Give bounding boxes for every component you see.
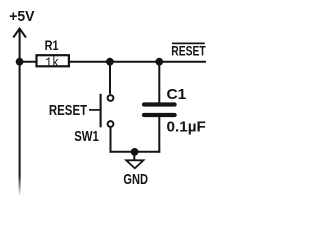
svg-text:SW1: SW1 <box>74 129 99 145</box>
svg-text:0.1µF: 0.1µF <box>167 119 207 135</box>
node: switch branch junction <box>106 58 114 66</box>
wire: left vertical (fading) <box>19 62 21 196</box>
wire: switch bottom terminal down <box>110 127 112 153</box>
capacitor C1 <box>144 105 175 116</box>
svg-text:RESET: RESET <box>171 44 206 59</box>
svg-text:1k: 1k <box>45 56 59 71</box>
node: +5V junction <box>16 58 24 66</box>
ground <box>126 152 143 168</box>
node: capacitor branch junction <box>155 58 163 66</box>
svg-text:RESET: RESET <box>49 103 87 119</box>
wire: capacitor bottom down <box>158 117 160 153</box>
wire: top horizontal rail <box>20 61 206 63</box>
node: ground junction <box>131 148 139 156</box>
svg-text:+5V: +5V <box>9 9 35 25</box>
svg-text:GND: GND <box>123 171 148 188</box>
svg-text:C1: C1 <box>167 86 187 103</box>
net RESET (active-low) output label <box>171 43 206 58</box>
switch SW1 (pushbutton) <box>101 94 114 128</box>
wire: junction down to capacitor <box>158 62 160 103</box>
wire: bottom horizontal to ground node <box>110 151 161 153</box>
label RESET (switch function) <box>49 103 100 119</box>
resistor R1 <box>37 55 69 66</box>
wire: junction to switch top terminal <box>109 62 111 94</box>
svg-text:R1: R1 <box>45 38 59 53</box>
+5V arrow <box>13 29 26 62</box>
